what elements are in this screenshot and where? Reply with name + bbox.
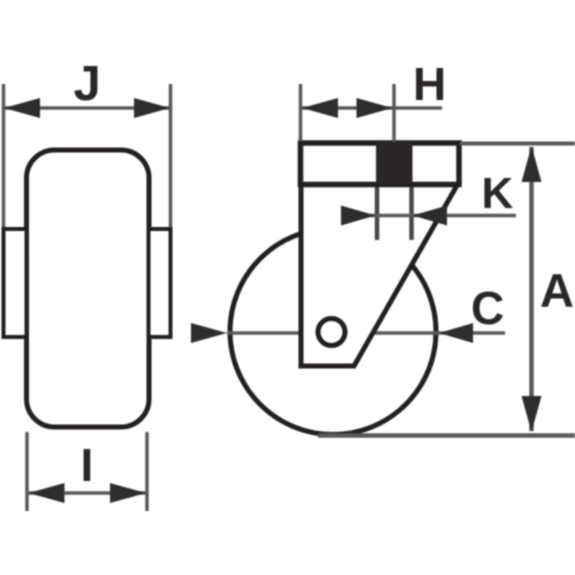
right axle flange	[149, 229, 171, 337]
left axle flange	[4, 229, 27, 337]
svg-text:C: C	[471, 282, 504, 334]
dimension H line	[302, 106, 442, 110]
dimension H arrow right	[357, 98, 393, 118]
wheel tyre (front view)	[27, 150, 150, 427]
dimension J extension line left	[2, 84, 6, 227]
dimension K arrow left	[341, 206, 376, 226]
dimension A arrow up	[522, 146, 542, 182]
dimension H extension line right (swivel axis)	[392, 84, 396, 142]
dimension K extension line right	[409, 186, 414, 240]
dimension I extension line right	[145, 432, 149, 511]
mounting plate	[301, 143, 460, 185]
dimension A extension line bottom	[318, 433, 575, 438]
dimension J arrow left	[4, 98, 40, 118]
axle bolt hole	[318, 319, 345, 346]
dimension K arrow right	[413, 206, 448, 226]
dimension J extension line right	[169, 84, 173, 227]
dimension K line	[342, 214, 516, 218]
svg-text:I: I	[81, 439, 94, 491]
dimension A line	[529, 147, 534, 431]
svg-text:A: A	[540, 264, 574, 317]
dimension C arrow left	[191, 323, 227, 343]
dimension I line	[28, 491, 146, 495]
kingpin block	[376, 142, 413, 184]
dimension J line	[4, 106, 170, 110]
svg-text:K: K	[482, 169, 514, 218]
dimension K extension line left	[375, 186, 380, 240]
dimension A extension line top	[460, 142, 575, 146]
dimension J arrow right	[134, 98, 170, 118]
wheel circle (side view)	[230, 229, 436, 435]
svg-text:H: H	[413, 58, 446, 110]
dimension I arrow left	[29, 483, 65, 503]
dimension I arrow right	[110, 483, 146, 503]
dimension I extension line left	[25, 432, 29, 511]
dimension C centre line	[227, 331, 505, 335]
dimension H arrow left	[302, 98, 338, 118]
dimension A arrow down	[522, 396, 542, 432]
dimension C arrow right	[439, 323, 473, 343]
svg-text:J: J	[74, 57, 101, 111]
swivel fork body	[301, 185, 458, 367]
dimension H extension line left	[299, 84, 303, 141]
